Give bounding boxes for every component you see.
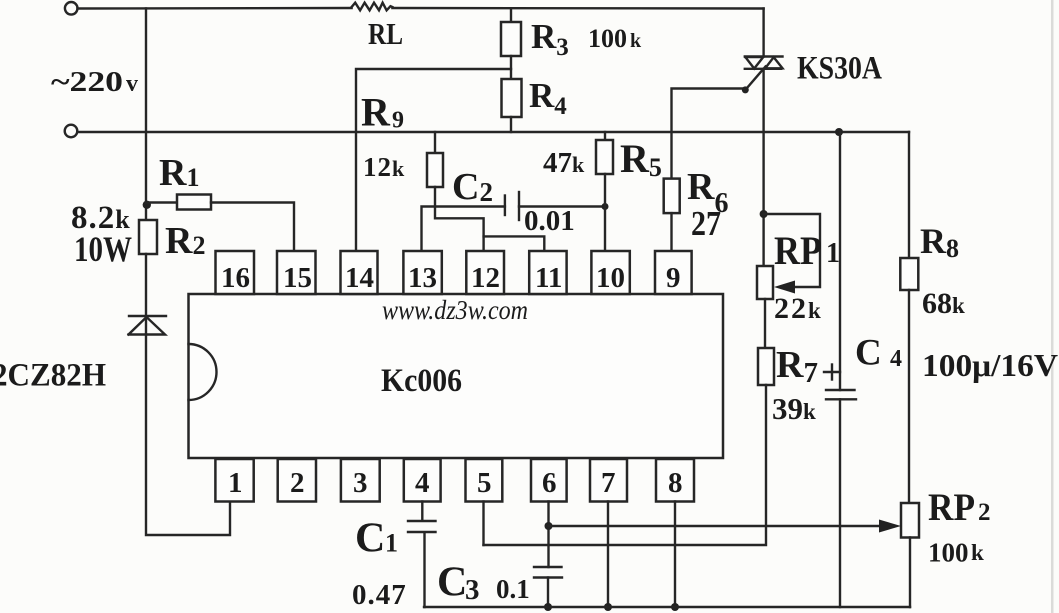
svg-text:100: 100 (928, 538, 969, 568)
wire C3 bottom (547, 578, 549, 608)
svg-text:www.dz3w.com: www.dz3w.com (382, 295, 528, 325)
wire C2 right to R5 line (519, 205, 605, 207)
svg-text:10: 10 (596, 262, 625, 294)
IC body KC006 (189, 294, 724, 458)
resistor RL zigzag (352, 3, 393, 11)
IC notch (189, 344, 217, 400)
pin 15 (277, 251, 316, 294)
svg-text:1: 1 (826, 238, 840, 269)
pin 4 (404, 459, 441, 502)
wire R3R4 junction to pin14 (356, 69, 511, 251)
svg-text:2: 2 (290, 467, 305, 499)
wire R2 to diode (145, 254, 147, 334)
svg-text:10W: 10W (74, 229, 132, 269)
svg-text:9: 9 (392, 108, 404, 134)
scan edge artifact (1051, 0, 1054, 613)
svg-text:v: v (126, 71, 138, 97)
wire R5 bottom to pin10 (604, 174, 606, 251)
resistor R5 47k (604, 132, 606, 140)
wire RP1 wiper loop (764, 214, 820, 287)
svg-text:13: 13 (408, 262, 437, 294)
wire R7 bottom to pin5 net (484, 385, 767, 545)
svg-text:4: 4 (890, 346, 902, 372)
node pin6/RP2 wire (545, 522, 553, 530)
wire R3 top (510, 9, 512, 23)
node RP1 loop top (760, 210, 768, 218)
svg-text:8: 8 (668, 467, 683, 499)
resistor R7 (758, 348, 774, 385)
wire pin13 to C2 (422, 207, 505, 252)
node C3 rail (544, 603, 552, 611)
node triac gate (742, 86, 749, 93)
svg-text:2CZ82H: 2CZ82H (0, 358, 106, 394)
pin 8 (656, 459, 694, 502)
node pin8 rail (671, 603, 679, 611)
svg-text:RL: RL (368, 16, 403, 51)
resistor R2 (139, 220, 157, 254)
svg-text:Kc006: Kc006 (381, 363, 462, 399)
wire branch to pin11 (484, 236, 545, 251)
resistor R1 (146, 201, 177, 203)
svg-text:2: 2 (978, 499, 991, 526)
svg-text:3: 3 (465, 574, 480, 606)
wire R6 to pin9 (670, 213, 672, 251)
resistor R4 (502, 79, 522, 117)
resistor R6 (664, 179, 680, 214)
svg-text:12: 12 (471, 262, 500, 294)
wire lower AC rail (77, 131, 909, 133)
wire pin6 down (547, 502, 549, 568)
svg-text:C: C (355, 516, 385, 562)
wire rail to R8 (908, 132, 910, 258)
node R1/R2 junction (143, 201, 151, 209)
wire pin4 to C1 (421, 502, 423, 521)
svg-text:9: 9 (666, 262, 681, 294)
svg-text:6: 6 (542, 467, 557, 499)
potentiometer RP1 (757, 266, 773, 299)
svg-text:11: 11 (535, 262, 562, 294)
wire pin5 down (482, 502, 484, 546)
svg-text:27: 27 (691, 204, 721, 243)
wire R9 bottom to pin12 (435, 187, 484, 251)
pin 11 (529, 251, 566, 294)
resistor R9 12k (434, 132, 436, 153)
svg-text:0.01: 0.01 (524, 205, 575, 237)
svg-text:k: k (971, 540, 984, 565)
svg-text:14: 14 (345, 262, 374, 294)
svg-text:RP: RP (774, 228, 822, 273)
node C4 top (835, 128, 843, 136)
svg-text:7: 7 (601, 467, 616, 499)
wire triac gate to R6 (672, 89, 746, 179)
wire RP2 bottom (909, 538, 911, 608)
wire pin8 down (674, 502, 676, 608)
svg-text:5: 5 (477, 467, 492, 499)
svg-text:0.47: 0.47 (352, 579, 407, 611)
pin 16 (216, 251, 255, 294)
pin 12 (466, 251, 504, 294)
pin 1 (215, 459, 253, 502)
pin 10 (591, 251, 629, 294)
svg-text:1: 1 (228, 467, 243, 499)
pin 2 (278, 459, 316, 502)
svg-text:~220: ~220 (51, 66, 123, 98)
diode 2CZ82H (129, 316, 167, 335)
pin 14 (341, 251, 378, 294)
wire pin7 down (607, 502, 609, 608)
svg-text:16: 16 (221, 262, 250, 294)
svg-text:RP: RP (928, 486, 975, 529)
wire R3-R4 (510, 56, 512, 79)
svg-text:3: 3 (353, 467, 368, 499)
svg-text:R: R (361, 90, 391, 135)
svg-text:1: 1 (385, 529, 398, 558)
svg-text:C: C (437, 560, 467, 606)
svg-text:100μ/16V: 100μ/16V (922, 347, 1058, 383)
pin 9 (655, 251, 692, 294)
wire C1 bottom to rail (423, 533, 425, 608)
wire diode down (146, 335, 230, 536)
node C2/R5 (602, 203, 609, 210)
terminal bottom (65, 125, 78, 138)
wire top rail right (392, 7, 763, 10)
resistor R3 (501, 22, 521, 56)
capacitor C2 (505, 192, 519, 220)
wire R8 to RP2 (908, 290, 910, 503)
potentiometer RP2 (901, 503, 919, 538)
wire RP1 to R7 (764, 299, 766, 348)
wire main left vertical (145, 9, 147, 221)
svg-text:KS30A: KS30A (797, 51, 882, 87)
resistor R8 (900, 258, 918, 290)
svg-text:C: C (855, 333, 882, 374)
svg-text:4: 4 (415, 467, 430, 499)
capacitor C4 (839, 132, 841, 390)
wire pin6 to RP2 wiper (549, 525, 883, 527)
wire R1 to pin15 (211, 203, 294, 252)
wire top rail left (78, 7, 352, 10)
label + (824, 365, 840, 380)
triac KS30A (745, 9, 783, 267)
node pin7 rail (604, 603, 612, 611)
wire C4 bottom (839, 399, 841, 607)
svg-text:0.1: 0.1 (496, 574, 530, 604)
svg-text:47k: 47k (543, 147, 585, 179)
pin 3 (341, 459, 380, 502)
pin 5 (466, 459, 503, 502)
capacitor C1 (408, 521, 436, 532)
wire R4 bottom (510, 117, 512, 132)
arrow RP1 wiper (774, 281, 795, 294)
pin 6 (531, 459, 567, 502)
pin 13 (403, 251, 441, 294)
svg-text:15: 15 (283, 262, 312, 294)
wire bottom rail (424, 606, 910, 608)
pin 7 (590, 459, 627, 502)
svg-text:12k: 12k (363, 152, 405, 182)
terminal top (65, 2, 78, 15)
capacitor C3 (534, 567, 562, 578)
arrow RP2 wiper (879, 520, 901, 533)
